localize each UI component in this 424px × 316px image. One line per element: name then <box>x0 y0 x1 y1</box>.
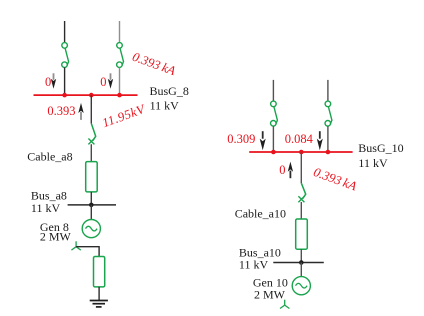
wire: switch S2 to BusG_8 <box>119 68 121 96</box>
switch S3 closed contact cross <box>88 139 94 145</box>
arrow: current direction down on feeder F1 <box>51 73 56 89</box>
wire: feeder F4 incoming line <box>327 80 329 101</box>
junction: cable drop on BusG_10 <box>299 150 304 155</box>
svg-text:0: 0 <box>100 75 106 89</box>
svg-text:0.309: 0.309 <box>227 132 255 146</box>
svg-text:11 kV: 11 kV <box>358 156 388 170</box>
wire: earthing resistor to ground <box>98 287 100 301</box>
bus BusG_8 (red busbar) <box>34 94 138 96</box>
switch S4 open disconnector on feeder F3 <box>271 101 278 126</box>
arrow: current direction up below BusG_10 <box>288 162 293 179</box>
wire: switch S5 to BusG_10 <box>327 126 329 152</box>
svg-text:0.393: 0.393 <box>47 104 75 118</box>
junction: F1 on BusG_8 <box>62 93 67 98</box>
wire: feeder F3 incoming line (right section) <box>272 80 274 101</box>
switch S5 open disconnector on feeder F4 <box>325 101 332 126</box>
ground symbol <box>90 301 108 307</box>
bus Bus_a10 (black busbar) <box>273 262 324 264</box>
cable Cable_a8 (rectangle symbol) <box>86 162 98 192</box>
wire: BusG_8 down to cable switch <box>90 95 92 124</box>
resistor: neutral earthing resistor of Gen 8 <box>94 257 105 287</box>
wire: Cable_a8 to Bus_a8 <box>90 192 92 205</box>
svg-text:Cable_a10: Cable_a10 <box>235 207 286 221</box>
bus BusG_10 (red busbar) <box>249 151 352 153</box>
switch S1 open disconnector on feeder F1 <box>62 43 69 68</box>
cable Cable_a10 (rectangle symbol) <box>296 219 308 249</box>
svg-text:2 MW: 2 MW <box>40 230 72 244</box>
arrow: current direction up below BusG_8 <box>78 103 83 120</box>
arrow: current direction down on feeder F2 <box>108 73 113 89</box>
junction: F3 on BusG_10 <box>271 150 276 155</box>
junction: Bus_a8 node <box>89 203 94 208</box>
wire: Bus_a10 to generator Gen 10 <box>300 263 302 277</box>
wire: Cable_a10 to Bus_a10 <box>300 249 302 262</box>
wire: switch S3 to Cable_a8 <box>90 144 92 161</box>
switch S2 open disconnector on feeder F2 <box>117 43 124 68</box>
wire: switch S1 to BusG_8 <box>64 68 66 96</box>
svg-text:0: 0 <box>279 163 285 177</box>
wire: BusG_10 down to cable switch <box>300 152 302 183</box>
switch S3 closed switch blade at Cable_a8 <box>91 124 95 141</box>
junction: F2 on BusG_8 <box>117 93 122 98</box>
svg-text:11 kV: 11 kV <box>150 98 180 112</box>
node: star point of Gen 10 <box>280 300 289 309</box>
svg-text:BusG_8: BusG_8 <box>150 84 189 98</box>
arrow: current direction down on feeder F3 <box>260 131 266 150</box>
wire: Bus_a8 to generator Gen 8 <box>90 205 92 220</box>
svg-text:Cable_a8: Cable_a8 <box>27 150 72 164</box>
wire: feeder F2 incoming line (gray) <box>119 21 121 43</box>
generator Gen 10 (circle with sine) <box>292 277 310 295</box>
node: star point of Gen 8 <box>71 241 80 250</box>
switch S6 closed switch blade at Cable_a10 <box>301 183 305 198</box>
wire: switch S4 to BusG_10 <box>272 126 274 152</box>
wire: neutral from star point to earthing resistor <box>76 247 99 257</box>
junction: Bus_a10 node <box>299 260 304 265</box>
svg-text:2 MW: 2 MW <box>254 287 286 301</box>
svg-text:BusG_10: BusG_10 <box>358 141 403 155</box>
wire: feeder F1 incoming line (top left) <box>64 21 66 43</box>
arrow: current direction down on feeder F4 <box>317 131 323 150</box>
junction: F4 on BusG_10 <box>326 150 331 155</box>
generator Gen 8 (circle with sine) <box>82 220 100 238</box>
wire: switch S6 to Cable_a10 <box>300 202 302 219</box>
svg-text:11 kV: 11 kV <box>239 258 269 272</box>
switch S6 closed contact cross <box>298 196 304 202</box>
junction: cable drop on BusG_8 <box>89 93 94 98</box>
bus Bus_a8 (black busbar) <box>68 204 116 206</box>
svg-text:11 kV: 11 kV <box>31 201 61 215</box>
svg-text:0: 0 <box>45 75 51 89</box>
svg-text:0.084: 0.084 <box>285 132 314 146</box>
